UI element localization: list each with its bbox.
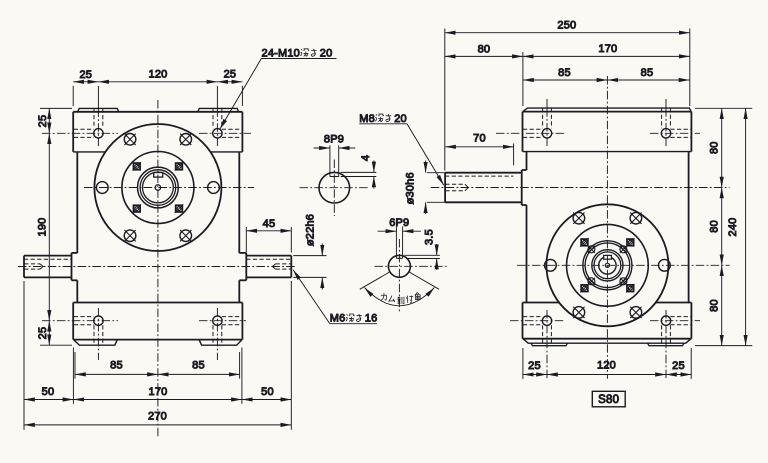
dim 85/85 bottom of left view bbox=[75, 352, 240, 379]
bottom plate bolt hole right (M10) bbox=[199, 308, 246, 360]
svg-text:170: 170 bbox=[149, 386, 168, 398]
svg-text:70: 70 bbox=[473, 133, 486, 145]
dim 85/85 right view bbox=[523, 67, 690, 80]
output flange outer circle bbox=[94, 124, 221, 251]
right view bottom plate bolt left (M10) bbox=[510, 310, 565, 379]
input hub circle 2 bbox=[594, 252, 621, 279]
detail: input keyway slot bbox=[396, 226, 402, 258]
left view vertical centerline bbox=[157, 100, 159, 439]
input housing screw 4 (circle with cross) bbox=[630, 307, 642, 319]
dim 80/80/80 right column bbox=[695, 108, 752, 345]
dim 240 right column bbox=[727, 108, 746, 345]
input tapped hole mark 3 (square) bbox=[580, 284, 588, 292]
right view vertical centerline bbox=[606, 76, 608, 379]
svg-text:16: 16 bbox=[365, 313, 378, 325]
svg-text:120: 120 bbox=[149, 69, 168, 81]
leader 24-M10 depth 20 bbox=[220, 48, 337, 130]
input small screw 2 bbox=[620, 246, 627, 253]
right shaft M6 tapped hole bbox=[272, 264, 291, 269]
right input shaft collar bbox=[239, 253, 246, 280]
dim dia30h6 bbox=[405, 161, 446, 215]
input bearing circle 1 bbox=[583, 241, 632, 290]
bottom plate bolt hole left (M10) bbox=[42, 308, 118, 360]
output flange boss circle bbox=[122, 152, 194, 224]
input tapped hole mark 2 (square) bbox=[626, 238, 634, 246]
svg-text:85: 85 bbox=[641, 67, 654, 79]
right view: main body sides bbox=[527, 152, 689, 303]
right input shaft keyway hidden line bbox=[246, 258, 291, 260]
dim 8P9 bbox=[314, 134, 356, 148]
output bore circle 1 bbox=[138, 167, 179, 208]
S80 model label bbox=[592, 391, 625, 407]
svg-text:25: 25 bbox=[224, 69, 237, 81]
input center hole bbox=[605, 263, 609, 267]
input shaft bore circle bbox=[599, 257, 616, 274]
flange tapped hole mark 4 (square) bbox=[175, 204, 183, 212]
cam indexing angle arc bbox=[365, 288, 435, 306]
left view: top pad right bbox=[198, 108, 239, 111]
dim dia22h6 bbox=[293, 214, 326, 290]
svg-text:S80: S80 bbox=[598, 394, 619, 406]
svg-text:45: 45 bbox=[263, 218, 276, 230]
svg-text:80: 80 bbox=[709, 299, 721, 312]
left input shaft keyway hidden line bbox=[24, 258, 72, 260]
left input shaft bbox=[24, 256, 72, 278]
svg-text:80: 80 bbox=[709, 141, 721, 154]
output shaft collar bbox=[522, 170, 527, 205]
svg-text:8P9: 8P9 bbox=[324, 134, 344, 146]
input housing side hole right bbox=[659, 259, 671, 271]
leader M8 depth 20 bbox=[359, 113, 444, 185]
detail: output keyway slot bbox=[330, 145, 339, 176]
flange side hole left bbox=[96, 182, 108, 194]
flange mounting screw 2 (circle with cross) bbox=[180, 134, 192, 146]
right view input centerline bbox=[517, 264, 730, 266]
input housing boss circle bbox=[567, 224, 649, 306]
left view: top plate bbox=[73, 112, 242, 152]
detail: output shaft section circle (dia30) bbox=[319, 172, 350, 203]
svg-text:3.5: 3.5 bbox=[424, 229, 436, 245]
svg-text:25: 25 bbox=[37, 327, 49, 340]
flange mounting screw 3 (circle with cross) bbox=[124, 230, 136, 242]
svg-text:ø22h6: ø22h6 bbox=[305, 214, 317, 246]
right view: bottom plate bbox=[523, 303, 692, 339]
dim 270 bottom of left view bbox=[24, 281, 291, 430]
svg-text:4: 4 bbox=[360, 155, 372, 161]
svg-text:85: 85 bbox=[110, 360, 123, 372]
output shaft M8 tapped hole bbox=[445, 184, 468, 191]
input tapped hole mark 4 (square) bbox=[626, 284, 634, 292]
flange tapped hole mark 3 (square) bbox=[133, 204, 141, 212]
output shaft centerline bbox=[431, 187, 730, 189]
flange tapped hole mark 1 (square) bbox=[133, 162, 141, 170]
dim 25/120/25 bottom of right view bbox=[523, 348, 691, 379]
flange mounting screw 1 (circle with cross) bbox=[124, 134, 136, 146]
left view: bottom pad right bbox=[199, 340, 242, 346]
svg-text:M6: M6 bbox=[330, 313, 346, 325]
input housing screw 3 (circle with cross) bbox=[573, 307, 585, 319]
svg-text:85: 85 bbox=[558, 67, 571, 79]
input housing screw 1 (circle with cross) bbox=[573, 212, 585, 224]
right view: top strip bbox=[523, 108, 691, 112]
right view: bottom pad left bbox=[531, 343, 568, 346]
output shaft keyway hidden line bbox=[445, 175, 513, 177]
dim 250 top bbox=[445, 20, 690, 171]
left view input shaft centerline bbox=[18, 266, 297, 268]
output shaft dia30 bbox=[445, 173, 522, 203]
input housing side hole left bbox=[545, 259, 557, 271]
right view top plate bolt left (M10) bbox=[496, 99, 565, 146]
output bore circle 2 bbox=[140, 170, 176, 206]
leader M6 depth 16 bbox=[293, 270, 377, 325]
svg-text:270: 270 bbox=[148, 411, 167, 423]
dim 3.5 keyway depth bbox=[405, 229, 440, 270]
left input shaft collar bbox=[72, 253, 78, 280]
cam indexing angle label (kanji) bbox=[381, 292, 420, 304]
output center hole bbox=[155, 185, 161, 191]
right view: bottom pad right bbox=[648, 343, 685, 346]
right view top plate bolt right (M10) bbox=[650, 99, 700, 146]
svg-text:85: 85 bbox=[192, 360, 205, 372]
svg-text:25: 25 bbox=[672, 360, 685, 372]
dim 4 keyway depth bbox=[341, 155, 377, 189]
input housing outer circle bbox=[546, 204, 668, 326]
svg-text:250: 250 bbox=[557, 20, 576, 32]
dim 25/120/25 top of left view bbox=[73, 69, 242, 107]
svg-text:20: 20 bbox=[394, 113, 407, 125]
input bearing circle 2 bbox=[585, 243, 630, 288]
flange tapped hole mark 2 (square) bbox=[175, 162, 183, 170]
top plate bolt hole right (M10) bbox=[199, 86, 251, 146]
svg-text:25: 25 bbox=[37, 115, 49, 128]
left shaft M6 tapped hole bbox=[24, 264, 43, 269]
right view bottom plate bolt right (M10) bbox=[650, 310, 700, 379]
detail1 centerlines bbox=[300, 160, 370, 217]
left view: bottom plate bbox=[73, 303, 242, 340]
svg-text:190: 190 bbox=[37, 218, 49, 237]
detail: input shaft section circle (dia22) bbox=[388, 255, 410, 277]
dim 80/170 bbox=[445, 43, 690, 106]
svg-text:20: 20 bbox=[320, 48, 333, 60]
svg-text:80: 80 bbox=[709, 220, 721, 233]
svg-text:80: 80 bbox=[478, 43, 491, 55]
svg-text:M8: M8 bbox=[359, 113, 375, 125]
dim 25/190/25 left column bbox=[37, 108, 73, 345]
cam indexing angle lines bbox=[360, 272, 439, 289]
dim 50/170/50 bottom of left view bbox=[24, 348, 291, 404]
left view flange horizontal centerline bbox=[84, 187, 254, 189]
flange mounting screw 4 (circle with cross) bbox=[180, 230, 192, 242]
svg-text:25: 25 bbox=[528, 360, 541, 372]
dim 70 output shaft bbox=[445, 133, 513, 166]
output bore keyway bbox=[154, 173, 163, 178]
left view: top pad left bbox=[78, 108, 119, 111]
input small screw 4 bbox=[620, 278, 627, 285]
svg-text:24-M10: 24-M10 bbox=[262, 48, 301, 60]
input hub circle 1 bbox=[592, 250, 623, 281]
svg-text:ø30h6: ø30h6 bbox=[405, 172, 417, 204]
svg-text:120: 120 bbox=[597, 360, 616, 372]
input housing screw 2 (circle with cross) bbox=[630, 212, 642, 224]
input bore keyway bbox=[604, 255, 612, 259]
left view: bottom pad left bbox=[74, 340, 118, 346]
left view: main body sides bbox=[77, 152, 239, 303]
flange side hole right bbox=[208, 182, 220, 194]
svg-text:6P9: 6P9 bbox=[389, 217, 409, 229]
top plate bolt hole left (M10) bbox=[42, 86, 118, 146]
svg-text:240: 240 bbox=[727, 218, 739, 237]
svg-text:50: 50 bbox=[261, 386, 274, 398]
svg-text:170: 170 bbox=[598, 43, 617, 55]
input tapped hole mark 1 (square) bbox=[580, 238, 588, 246]
dim 6P9 bbox=[378, 217, 421, 231]
input small screw 1 bbox=[588, 246, 595, 253]
right view: bottom strip bbox=[523, 339, 691, 344]
svg-text:50: 50 bbox=[42, 386, 55, 398]
input small screw 3 bbox=[588, 278, 595, 285]
output shaft end circle bbox=[143, 172, 174, 203]
right input shaft bbox=[246, 256, 291, 278]
detail2 centerlines bbox=[375, 239, 448, 313]
right view: top plate bbox=[523, 112, 692, 152]
dim 45 right shaft bbox=[246, 218, 291, 252]
svg-text:25: 25 bbox=[79, 69, 92, 81]
